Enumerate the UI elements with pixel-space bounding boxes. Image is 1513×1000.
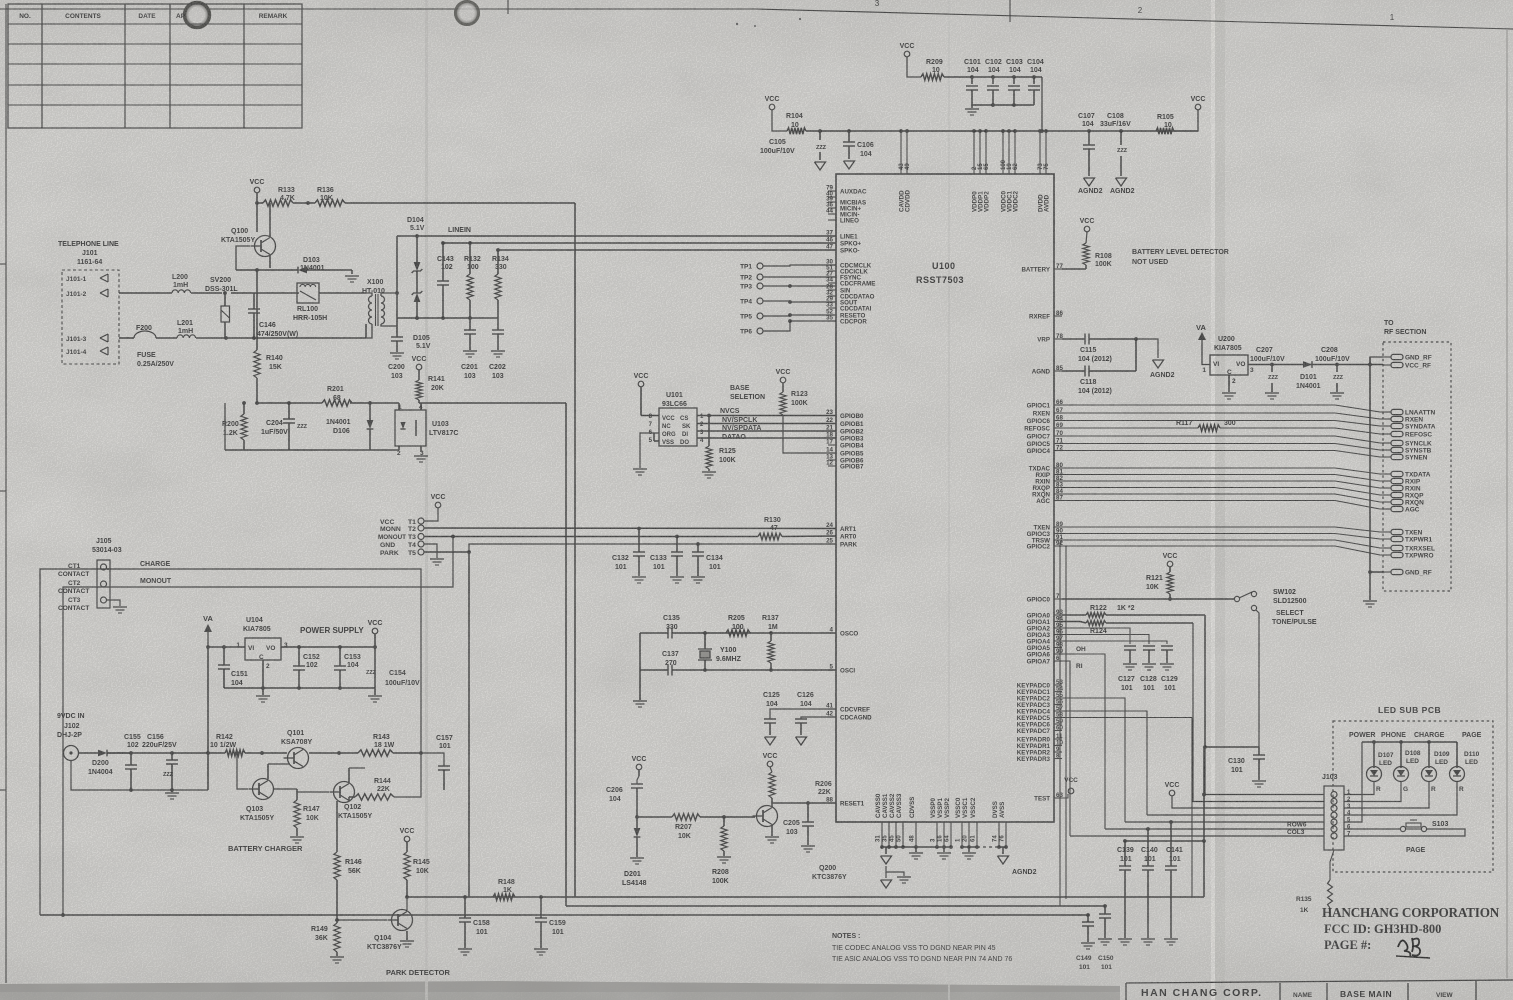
power VCC R108: [1084, 226, 1090, 232]
wire gpioa2: [1062, 628, 1130, 644]
RF pin TXPWR1: [1391, 536, 1403, 541]
capacitor C152: [298, 647, 300, 666]
power VCC R123: [780, 377, 786, 383]
wire to J103 pin6: [1105, 828, 1324, 830]
resistor R125: [708, 416, 710, 447]
wire U200 output: [1248, 364, 1383, 366]
power VCC R209: [904, 51, 910, 57]
wire VA to U104: [208, 646, 245, 648]
wire MONOUT line: [424, 536, 758, 538]
wire keypadc2 to J103: [1062, 698, 1125, 822]
ground U100 vssp: [943, 847, 945, 852]
wire MONN to ART1: [424, 527, 836, 530]
wire zener bottom bus: [397, 317, 498, 319]
left ruler tick B: [0, 490, 6, 492]
wire keypadc5 long: [1062, 717, 1192, 719]
wire SPKO- long: [498, 249, 836, 251]
connector J102: [64, 746, 79, 761]
RF pin RXQN: [1391, 499, 1403, 504]
power VCC test pin: [1068, 788, 1074, 794]
wire vertical bus V2: [565, 403, 567, 906]
wire to J103 pin5: [1125, 821, 1324, 823]
RF pin GND_RF: [1391, 569, 1403, 574]
connector J105: [97, 560, 110, 608]
left page border: [5, 4, 7, 983]
capacitor C201: [469, 318, 471, 330]
ground AGND2 vrp: [1136, 339, 1158, 358]
U100 bottom pins ground: [881, 822, 883, 847]
right page edge: [1506, 30, 1508, 978]
power VCC U101: [638, 381, 644, 387]
wire U103 node to V2: [421, 402, 566, 404]
switch S103: [1344, 828, 1400, 830]
left ruler tick A: [0, 263, 6, 265]
switch SW102: [1234, 596, 1239, 601]
wire PARK down: [468, 552, 470, 897]
capacitor C127: [1124, 645, 1136, 647]
ruler tick zone 2-3: [1009, 0, 1011, 22]
ground CT3: [107, 600, 120, 606]
wire bus A to J103 riser: [1203, 747, 1205, 897]
power VCC osc: [636, 764, 642, 770]
RF pin REFOSC: [1391, 431, 1403, 436]
wire monout-left-bus: [63, 587, 109, 915]
wire gpioa0 drop: [1204, 615, 1206, 747]
wire bottom bus C: [40, 914, 1088, 916]
capacitor C134: [697, 544, 699, 552]
wire ring line: [119, 337, 134, 339]
RF pin TXEN: [1391, 529, 1403, 534]
wire SPKO+ long: [443, 242, 836, 244]
wire to J103 pin4: [1147, 814, 1324, 816]
fix wire R201: [350, 402, 399, 404]
wire parallel bottom rail: [225, 449, 399, 451]
power VCC R145: [404, 836, 410, 842]
RF pin VCC_RF: [1391, 362, 1403, 367]
wire to J103 pin7: [1070, 835, 1324, 837]
ground U100 vssc: [968, 847, 970, 852]
cap ground rail: [972, 104, 1034, 106]
wire led bus to pin5: [1344, 742, 1362, 822]
RF pin SYNEN: [1391, 454, 1403, 459]
wire switch to C130: [1256, 610, 1259, 747]
RF pin GND_RF: [1391, 354, 1403, 359]
wire LINE1 long: [397, 235, 836, 237]
power VCC R104: [769, 104, 775, 110]
capacitor C129: [1161, 645, 1173, 647]
connector J101 dashed box: [62, 270, 119, 364]
wire vertical bus V1: [574, 203, 576, 897]
resistor R135: [1330, 850, 1334, 880]
capacitor C133: [676, 537, 678, 553]
page border ruler top: [0, 9, 1513, 29]
capacitor C140: [1147, 829, 1149, 866]
RF pin SYNCLK: [1391, 440, 1403, 445]
LED sub pcb dashed box: [1333, 721, 1493, 872]
wire rail drop: [1041, 77, 1043, 131]
capacitor C151: [223, 647, 225, 665]
capacitor C146: [253, 293, 255, 309]
power VCC R141: [416, 364, 422, 370]
wire vrp-agnd join: [1135, 339, 1137, 371]
vertical bus right B: [1060, 540, 1062, 906]
wire PARK line: [424, 551, 469, 553]
ground U100 cavss: [885, 847, 887, 854]
capacitor C202: [497, 318, 499, 330]
wire CHARGE down: [109, 569, 421, 753]
wire vcc rail upper: [806, 130, 1198, 132]
power VCC Q100: [254, 187, 260, 193]
punch hole right: [454, 0, 480, 26]
wire OSCO: [705, 632, 836, 634]
U104 ground pin: [262, 660, 264, 688]
wire bottom bus A: [575, 896, 1204, 898]
paper specks: [736, 23, 738, 25]
RF pin LNAATTN: [1391, 409, 1403, 414]
resistor R123: [780, 392, 786, 415]
punch hole left: [183, 1, 211, 29]
wire Q101 out: [309, 752, 339, 754]
revision table: [8, 4, 302, 128]
wire gpioa3: [1062, 635, 1149, 645]
wire osc left leg: [639, 633, 641, 670]
ground at D103: [351, 270, 353, 274]
wire 9v rail: [107, 752, 225, 754]
RF pin RXIN: [1391, 485, 1403, 490]
RF pin TXPWRO: [1391, 552, 1403, 557]
capacitor C150: [1104, 906, 1106, 914]
capacitor C158: [464, 897, 466, 918]
wire bottom bus B: [566, 905, 1105, 907]
wire LINEIN vertical: [396, 236, 398, 293]
wire tip to transformer: [231, 292, 299, 294]
capacitor C132: [638, 529, 640, 553]
wire R148 line: [407, 896, 541, 898]
U100 top pins power: [900, 131, 902, 174]
ground U100 avss agnd2: [1002, 847, 1004, 854]
capacitor C139: [1124, 841, 1126, 866]
signal wires gpioc to rf: [1062, 405, 1383, 412]
capacitor C149: [1087, 915, 1089, 922]
capacitor C153: [339, 647, 341, 666]
wire S103 to pin7: [1344, 829, 1465, 836]
wire C130 to J103 pin1: [1205, 747, 1324, 795]
wire U101 vss ground: [640, 433, 659, 468]
power VCC top right: [1195, 104, 1201, 110]
relay RL100: [297, 283, 319, 303]
vertical bus right A: [1062, 546, 1066, 899]
IC U100 RSST7503: [836, 174, 1054, 822]
RF pin AGC: [1391, 506, 1403, 511]
ground U100 cdvss: [915, 847, 917, 852]
ruler tick zone 3-4: [507, 0, 509, 14]
capacitor C154: [374, 647, 376, 688]
wire gpioa4: [1062, 641, 1167, 644]
wire GND_RF top: [1370, 357, 1383, 365]
diode D200: [78, 752, 98, 754]
wire MONOUT down: [109, 537, 453, 588]
wire keypadc4 to J103: [1062, 711, 1147, 815]
capacitor C159: [539, 895, 543, 899]
RF pin RXQP: [1391, 492, 1403, 497]
wire to J103 pin2: [1193, 623, 1324, 802]
wire to X100 bottom: [365, 324, 367, 338]
ground return 9v: [71, 760, 208, 790]
power VCC T1: [435, 502, 441, 508]
wire R136 to bus: [345, 202, 575, 204]
title block bottom: [1125, 983, 1127, 1000]
resistor R140: [256, 270, 258, 350]
wire charge-left-bus: [40, 569, 109, 915]
ground rail power supply: [224, 687, 375, 689]
power VCC R121: [1167, 561, 1173, 567]
RF pin SYNSTB: [1391, 447, 1403, 452]
ground extra pair: [886, 866, 904, 876]
wire park to V1: [541, 896, 575, 898]
RF pin TXRXSEL: [1391, 545, 1403, 550]
optocoupler U103: [395, 410, 426, 446]
RF pin TXDATA: [1391, 471, 1403, 476]
capacitor C128: [1143, 645, 1155, 647]
wire GPIOC0 to switch: [1062, 598, 1234, 600]
wire CHARGE: [107, 568, 109, 570]
wire C139 top rail: [1125, 840, 1204, 842]
RF pin RXEN: [1391, 416, 1403, 421]
ground bus U100 bottom: [882, 846, 951, 848]
wire tip line: [119, 292, 172, 294]
left ruler tick C: [0, 789, 6, 791]
capacitor C200: [396, 326, 398, 337]
RF pin RXIP: [1391, 478, 1403, 483]
wire RESET1: [772, 802, 836, 804]
power VCC J103: [1169, 790, 1175, 796]
connector RF section dashed box: [1383, 342, 1451, 591]
wire U104 out: [281, 646, 375, 648]
wire OSCI: [705, 669, 836, 671]
wire GND_RF vertical: [1369, 357, 1371, 600]
capacitor C141: [1170, 822, 1172, 866]
power VCC out: [372, 628, 378, 634]
LED anode bus: [1362, 741, 1457, 743]
RF pin SYNDATA: [1391, 423, 1403, 428]
